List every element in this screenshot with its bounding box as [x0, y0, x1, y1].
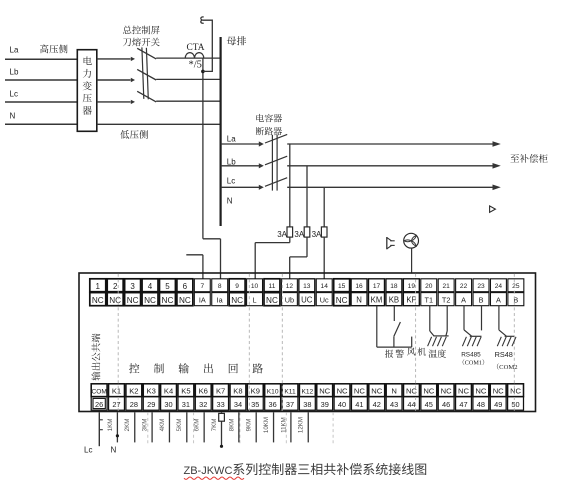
svg-text:7KM: 7KM [211, 419, 218, 432]
junction dot CT secondary [201, 70, 205, 74]
svg-text:NC: NC [510, 387, 521, 396]
svg-text:10KM: 10KM [263, 417, 270, 433]
svg-text:2: 2 [113, 282, 118, 291]
fan symbol [404, 233, 419, 248]
svg-text:La: La [10, 46, 19, 55]
svg-text:母排: 母排 [227, 33, 247, 48]
svg-text:42: 42 [373, 400, 381, 409]
label 温度 [428, 347, 446, 360]
fuse 3A (Lb) and wire to terminal 12 Ub [290, 166, 310, 279]
svg-text:K3: K3 [147, 387, 156, 396]
svg-text:Lc: Lc [227, 177, 235, 186]
svg-text:33: 33 [216, 400, 224, 409]
svg-text:T1: T1 [424, 296, 433, 305]
node Lb (HV) [10, 67, 19, 76]
svg-text:34: 34 [234, 400, 242, 409]
terminal strip pins 26-50 [91, 384, 523, 410]
dashed gridlines [118, 274, 514, 411]
svg-text:43: 43 [390, 400, 398, 409]
label low-voltage side [120, 127, 149, 141]
svg-text:47: 47 [459, 400, 467, 409]
node Lc (feed) [84, 445, 92, 454]
svg-text:*/5: */5 [188, 60, 201, 71]
svg-text:刀熔开关: 刀熔开关 [123, 35, 161, 49]
svg-text:NC: NC [127, 296, 139, 305]
controller outline ZB-JKWC [79, 273, 536, 412]
svg-text:KF: KF [406, 296, 416, 305]
svg-text:NC: NC [354, 387, 365, 396]
svg-text:40: 40 [338, 400, 346, 409]
arrow N stub [490, 206, 496, 212]
relay changeover contact KM/KB/KF [377, 306, 412, 347]
label 风机 [407, 345, 428, 358]
svg-text:50: 50 [511, 400, 519, 409]
wires knife switch to busbar [156, 58, 220, 101]
svg-text:20: 20 [425, 283, 433, 290]
svg-text:COM: COM [91, 389, 106, 396]
svg-text:RS48: RS48 [495, 350, 513, 359]
svg-text:29: 29 [147, 400, 155, 409]
node Lb (LV branch) [227, 157, 236, 166]
svg-text:41: 41 [355, 400, 363, 409]
svg-text:风机: 风机 [407, 345, 428, 358]
wire CT secondary k2 to terminal 7 IA [186, 255, 203, 279]
svg-text:4: 4 [148, 282, 153, 291]
svg-text:高压侧: 高压侧 [40, 41, 69, 55]
svg-text:23: 23 [477, 283, 485, 290]
svg-text:CTA: CTA [187, 43, 205, 53]
svg-text:至补偿柜: 至补偿柜 [510, 151, 549, 165]
svg-text:6KM: 6KM [194, 419, 201, 432]
svg-text:46: 46 [442, 400, 450, 409]
svg-text:25: 25 [512, 283, 520, 290]
svg-text:NC: NC [231, 296, 243, 305]
svg-text:19: 19 [408, 283, 416, 290]
label 电容器断路器 [255, 112, 282, 138]
svg-text:28: 28 [130, 400, 138, 409]
svg-text:NC: NC [371, 387, 382, 396]
terminal strip pins 1-25 [90, 279, 524, 306]
label 输出公共端 [89, 333, 103, 381]
svg-text:NC: NC [162, 296, 174, 305]
svg-text:系列控制器三相共补偿系统接线图: 系列控制器三相共补偿系统接线图 [232, 459, 427, 478]
svg-text:30: 30 [164, 400, 172, 409]
svg-text:NC: NC [475, 387, 486, 396]
svg-text:温度: 温度 [428, 347, 446, 360]
svg-text:Ub: Ub [285, 296, 294, 305]
svg-text:KM: KM [371, 296, 383, 305]
svg-text:5KM: 5KM [176, 419, 183, 432]
svg-text:44: 44 [407, 400, 415, 409]
svg-text:UC: UC [301, 296, 313, 305]
knife-fuse switch blades [137, 48, 156, 102]
svg-text:K4: K4 [164, 387, 173, 396]
svg-text:5: 5 [165, 282, 170, 291]
svg-text:10: 10 [251, 283, 259, 290]
svg-text:38: 38 [303, 400, 311, 409]
current transformer CTA [185, 43, 205, 71]
svg-text:3KM: 3KM [142, 419, 149, 432]
breaker gang bars [272, 135, 277, 191]
wire Lc HV [5, 101, 77, 103]
svg-text:Ia: Ia [217, 296, 224, 305]
svg-text:4KM: 4KM [159, 419, 166, 432]
node N (LV branch) [227, 197, 233, 206]
svg-text:NC: NC [337, 387, 348, 396]
svg-text:3A: 3A [294, 230, 304, 239]
wires to compensation cabinet with arrows [287, 141, 501, 190]
svg-text:NC: NC [92, 296, 104, 305]
svg-text:Lc: Lc [10, 89, 18, 98]
svg-text:NC: NC [144, 296, 156, 305]
wire fan to terminal 19 KF [411, 248, 413, 274]
svg-text:12: 12 [286, 283, 294, 290]
wire COM to Lc [99, 412, 103, 446]
indicator on 7KM wire [219, 413, 225, 448]
wire CT secondary k1 [203, 58, 221, 279]
svg-text:A: A [496, 296, 501, 305]
svg-text:N: N [356, 296, 362, 305]
label 母排 [227, 33, 247, 48]
temperature sensor T1/T2 [428, 306, 449, 347]
node Lc (HV) [10, 89, 18, 98]
knife-fuse switch gang bars [142, 47, 148, 99]
svg-text:K10: K10 [267, 389, 279, 396]
RS485 COM1 port A/B [462, 306, 481, 347]
fuse 3A (Lc) and wire to terminal 14 Uc [312, 187, 327, 279]
svg-text:27: 27 [112, 400, 120, 409]
svg-text:N: N [227, 197, 233, 206]
svg-text:Lc: Lc [84, 445, 92, 454]
svg-text:36: 36 [269, 400, 277, 409]
node N (feed) [111, 445, 117, 454]
svg-text:3A: 3A [312, 230, 322, 239]
svg-text:NC: NC [336, 296, 348, 305]
svg-text:11: 11 [269, 283, 276, 290]
svg-text:2KM: 2KM [124, 419, 131, 432]
fuse 3A (La) and wire to terminal 10 L [255, 144, 292, 279]
svg-text:8KM: 8KM [228, 419, 235, 432]
alarm horn symbol [387, 237, 395, 249]
wire N HV [5, 123, 77, 125]
svg-text:NC: NC [493, 387, 504, 396]
svg-text:A: A [461, 296, 466, 305]
node La (LV branch) [227, 135, 236, 144]
svg-text:低压侧: 低压侧 [120, 127, 149, 141]
svg-text:45: 45 [425, 400, 433, 409]
svg-text:K1: K1 [112, 387, 121, 396]
svg-text:断路器: 断路器 [255, 124, 282, 137]
svg-text:NC: NC [179, 296, 191, 305]
svg-text:Lb: Lb [227, 157, 236, 166]
dashed gridlines below [148, 412, 333, 443]
svg-text:B: B [479, 296, 484, 305]
svg-text:器: 器 [82, 103, 92, 117]
svg-text:21: 21 [442, 283, 450, 290]
svg-text:9KM: 9KM [246, 419, 253, 432]
node Lc (LV branch) [227, 177, 235, 186]
svg-text:N: N [10, 112, 16, 121]
svg-text:37: 37 [286, 400, 294, 409]
svg-text:（COM1）: （COM1） [459, 358, 489, 367]
node N (HV) [10, 112, 16, 121]
svg-text:17: 17 [373, 283, 381, 290]
svg-text:NC: NC [423, 387, 434, 396]
svg-text:K11: K11 [284, 389, 296, 396]
svg-text:8: 8 [218, 283, 222, 290]
svg-text:报警: 报警 [385, 347, 406, 360]
svg-text:16: 16 [355, 283, 363, 290]
svg-text:48: 48 [477, 400, 485, 409]
capacitor circuit breaker contacts and blades [221, 134, 288, 190]
svg-text:L: L [253, 296, 257, 305]
svg-text:15: 15 [338, 283, 346, 290]
svg-text:26: 26 [95, 400, 103, 409]
svg-text:输出公共端: 输出公共端 [89, 333, 103, 381]
transformer 电力变压器 [77, 50, 97, 132]
svg-text:35: 35 [251, 400, 259, 409]
svg-text:N: N [391, 387, 396, 396]
wire N to busbar [97, 123, 221, 125]
svg-text:K9: K9 [251, 387, 260, 396]
svg-text:13: 13 [303, 283, 311, 290]
svg-text:9: 9 [235, 283, 239, 290]
svg-text:1KM: 1KM [107, 419, 114, 432]
label RS48 COM2 [493, 350, 518, 371]
svg-text:控制输出回路: 控制输出回路 [129, 361, 277, 377]
svg-text:IA: IA [199, 296, 206, 305]
svg-text:NC: NC [319, 387, 330, 396]
svg-text:T2: T2 [442, 296, 451, 305]
svg-text:6: 6 [183, 282, 188, 291]
svg-text:NC: NC [458, 387, 469, 396]
svg-text:KB: KB [389, 296, 399, 305]
svg-text:Lb: Lb [10, 67, 19, 76]
svg-text:18: 18 [390, 283, 398, 290]
svg-text:K5: K5 [181, 387, 190, 396]
wire CT secondary loop with hook terminal [201, 17, 213, 71]
RS485 COM2 port A [497, 306, 516, 347]
label 控制输出回路 [129, 361, 277, 377]
label 至补偿柜 [510, 151, 549, 165]
svg-text:N: N [111, 445, 117, 454]
svg-text:3: 3 [130, 282, 135, 291]
node La (HV) [10, 46, 19, 55]
label RS485 COM1 [459, 352, 489, 367]
label 总控制屏刀熔开关 [123, 22, 161, 48]
svg-text:31: 31 [182, 400, 190, 409]
svg-text:K2: K2 [129, 387, 138, 396]
svg-text:3A: 3A [277, 230, 287, 239]
svg-text:电容器: 电容器 [255, 112, 282, 125]
busbar 母排 [220, 37, 222, 226]
svg-text:K8: K8 [233, 387, 242, 396]
wires K1-K12 to contactors [117, 412, 308, 446]
svg-text:32: 32 [199, 400, 207, 409]
svg-text:La: La [227, 135, 236, 144]
wire Lb HV [5, 79, 77, 81]
svg-text:（COM2: （COM2 [493, 361, 518, 371]
labels 1KM-12KM [107, 417, 305, 433]
svg-text:Uc: Uc [320, 296, 329, 305]
wires to knife-fuse switch with contact arrows [97, 57, 135, 104]
svg-text:49: 49 [494, 400, 502, 409]
label 报警 [385, 347, 406, 360]
svg-text:24: 24 [495, 283, 503, 290]
svg-text:K12: K12 [301, 389, 313, 396]
svg-text:K6: K6 [199, 387, 208, 396]
junction dot K1/N [116, 434, 119, 437]
svg-text:11KM: 11KM [280, 417, 287, 433]
wire La HV [5, 58, 77, 60]
caption ZB-JKWC wiring diagram title [184, 459, 428, 479]
svg-text:12KM: 12KM [298, 417, 305, 433]
svg-text:14: 14 [321, 283, 329, 290]
svg-text:22: 22 [460, 283, 468, 290]
svg-text:NC: NC [441, 387, 452, 396]
svg-text:7: 7 [200, 283, 204, 290]
svg-text:K7: K7 [216, 387, 225, 396]
svg-text:39: 39 [321, 400, 329, 409]
svg-text:ZB-JKWC: ZB-JKWC [184, 465, 233, 477]
label high-voltage side [40, 41, 69, 55]
svg-text:NC: NC [109, 296, 121, 305]
svg-text:NC: NC [266, 296, 278, 305]
svg-text:1: 1 [96, 282, 101, 291]
